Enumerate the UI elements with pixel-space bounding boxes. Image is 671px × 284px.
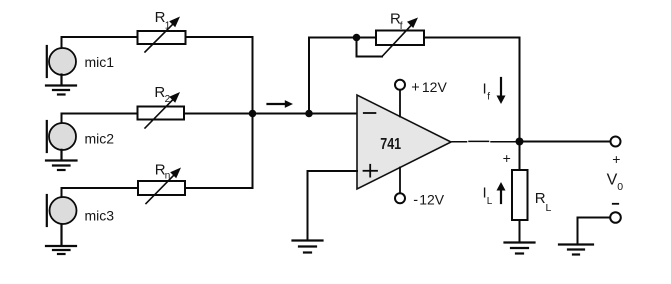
svg-text:+: + [503,150,511,166]
svg-text:R: R [535,190,546,207]
microphone mic1 [47,46,114,77]
wire op-amp output to output node [452,140,520,142]
svg-text:f: f [400,21,403,32]
svg-text:I: I [483,81,487,98]
svg-text:-: - [413,193,418,209]
wire output node to V0+ terminal [520,141,611,143]
svg-text:n: n [165,171,171,182]
wire non-inverting input to ground [308,171,358,240]
wire R2 right through summing node to op-amp inverting input [184,113,357,115]
ground non-inverting input [293,241,323,253]
wire mic2 top to R2 left [62,114,138,124]
op-amp positive supply +12V [395,79,447,116]
svg-text:mic2: mic2 [85,130,115,146]
svg-text:+: + [612,151,620,167]
svg-text:mic1: mic1 [85,54,115,70]
wire feedback tap up and to Rf [309,38,376,114]
svg-text:L: L [546,202,552,214]
svg-text:L: L [487,196,493,207]
wire V0- terminal to ground [578,218,611,244]
wire RL to ground [519,220,521,242]
ground output reference [559,245,593,255]
junction inverting-input node (feedback tap) [305,110,313,118]
wire summing bus (vertical) [252,37,254,188]
wire mic1 top to R1 left [62,37,138,49]
op-amp negative supply -12V [395,168,445,209]
svg-text:741: 741 [380,136,401,153]
label If with down arrow [483,78,506,104]
resistor RL [512,170,552,220]
current direction arrow into amplifier [268,100,294,108]
junction summing node [249,110,257,118]
ground mic1 [46,75,76,95]
wire Rf wiper connection [357,38,383,57]
terminal V0- [610,212,621,223]
svg-text:1: 1 [165,20,171,31]
svg-text:0: 0 [617,181,623,193]
wire Rf right to output node (down right side) [424,38,520,142]
microphone mic2 [47,121,114,152]
wire mic3 top to Rn left [62,188,139,197]
ground mic2 [46,150,77,170]
svg-text:+: + [411,80,419,96]
svg-text:f: f [487,92,490,103]
svg-text:V: V [607,171,618,188]
svg-text:mic3: mic3 [85,208,115,224]
junction Rf wiper node [353,34,361,42]
resistor R1 (variable) [138,9,186,52]
resistor Rf (variable, feedback) [376,10,424,56]
terminal V0+ [611,137,621,147]
svg-text:12V: 12V [419,192,445,208]
wire R1 right to summing bus corner [186,36,253,38]
label V0 output voltage [607,151,624,204]
svg-text:2: 2 [165,94,171,105]
ground mic3 [46,225,76,255]
svg-text:12V: 12V [422,79,448,95]
resistor R2 (variable) [138,84,185,128]
microphone mic3 [47,195,114,226]
resistor Rn (variable) [138,162,185,204]
op-amp U1 741 [357,95,451,189]
ground RL [505,243,535,254]
junction output node [516,138,524,146]
label IL with up arrow [483,182,506,207]
wire Rn right to summing bus corner [185,187,253,189]
wire output node down to RL [519,142,521,171]
